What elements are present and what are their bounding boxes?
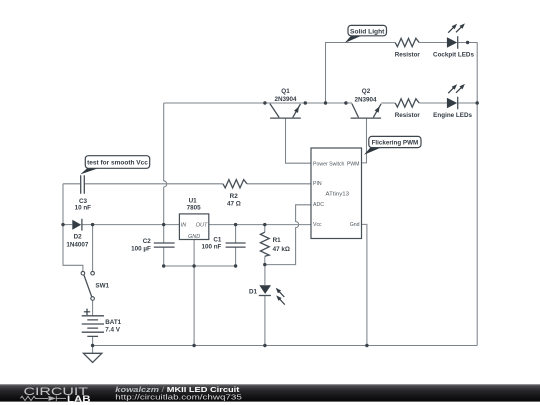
svg-text:SW1: SW1: [95, 282, 109, 289]
svg-text:ADC: ADC: [313, 202, 324, 208]
svg-text:Engine LEDs: Engine LEDs: [433, 112, 472, 119]
svg-text:Vcc: Vcc: [313, 222, 322, 228]
svg-text:PWM: PWM: [347, 161, 360, 167]
svg-text:47 kΩ: 47 kΩ: [273, 246, 290, 253]
svg-text:ATtiny13: ATtiny13: [326, 192, 350, 198]
svg-text:Solid Light: Solid Light: [350, 28, 385, 35]
svg-text:Power Switch: Power Switch: [313, 161, 345, 167]
svg-text:2N3904: 2N3904: [354, 96, 377, 103]
svg-text:R2: R2: [230, 193, 239, 200]
svg-text:100 µF: 100 µF: [131, 246, 151, 253]
svg-text:1N4007: 1N4007: [66, 241, 89, 248]
svg-text:Resistor: Resistor: [395, 112, 421, 119]
svg-text:Q2: Q2: [362, 88, 371, 95]
svg-text:OUT: OUT: [196, 223, 208, 229]
svg-text:Flickering PWM: Flickering PWM: [372, 140, 419, 147]
svg-text:D1: D1: [249, 288, 258, 295]
svg-text:Q1: Q1: [281, 88, 290, 95]
svg-text:R1: R1: [273, 237, 282, 244]
svg-text:GND: GND: [188, 234, 200, 240]
svg-text:7805: 7805: [187, 205, 202, 212]
svg-text:http://circuitlab.com/chwq735: http://circuitlab.com/chwq735: [115, 393, 242, 402]
svg-text:Resistor: Resistor: [395, 52, 421, 59]
svg-text:Gnd: Gnd: [350, 222, 360, 228]
svg-text:BAT1: BAT1: [105, 319, 121, 326]
svg-text:LAB: LAB: [67, 394, 91, 404]
svg-text:C1: C1: [213, 236, 222, 243]
svg-text:47 Ω: 47 Ω: [227, 201, 241, 208]
svg-text:PIN: PIN: [313, 181, 322, 187]
svg-text:C2: C2: [143, 238, 152, 245]
svg-text:D2: D2: [74, 234, 83, 241]
svg-text:7.4 V: 7.4 V: [105, 327, 121, 334]
svg-text:IN: IN: [181, 223, 187, 229]
svg-text:2N3904: 2N3904: [274, 96, 297, 103]
svg-text:100 nF: 100 nF: [201, 244, 221, 251]
svg-text:10 nF: 10 nF: [75, 205, 92, 212]
svg-text:Cockpit LEDs: Cockpit LEDs: [433, 52, 474, 59]
svg-text:test for smooth Vcc: test for smooth Vcc: [87, 160, 148, 167]
svg-text:U1: U1: [189, 198, 198, 205]
